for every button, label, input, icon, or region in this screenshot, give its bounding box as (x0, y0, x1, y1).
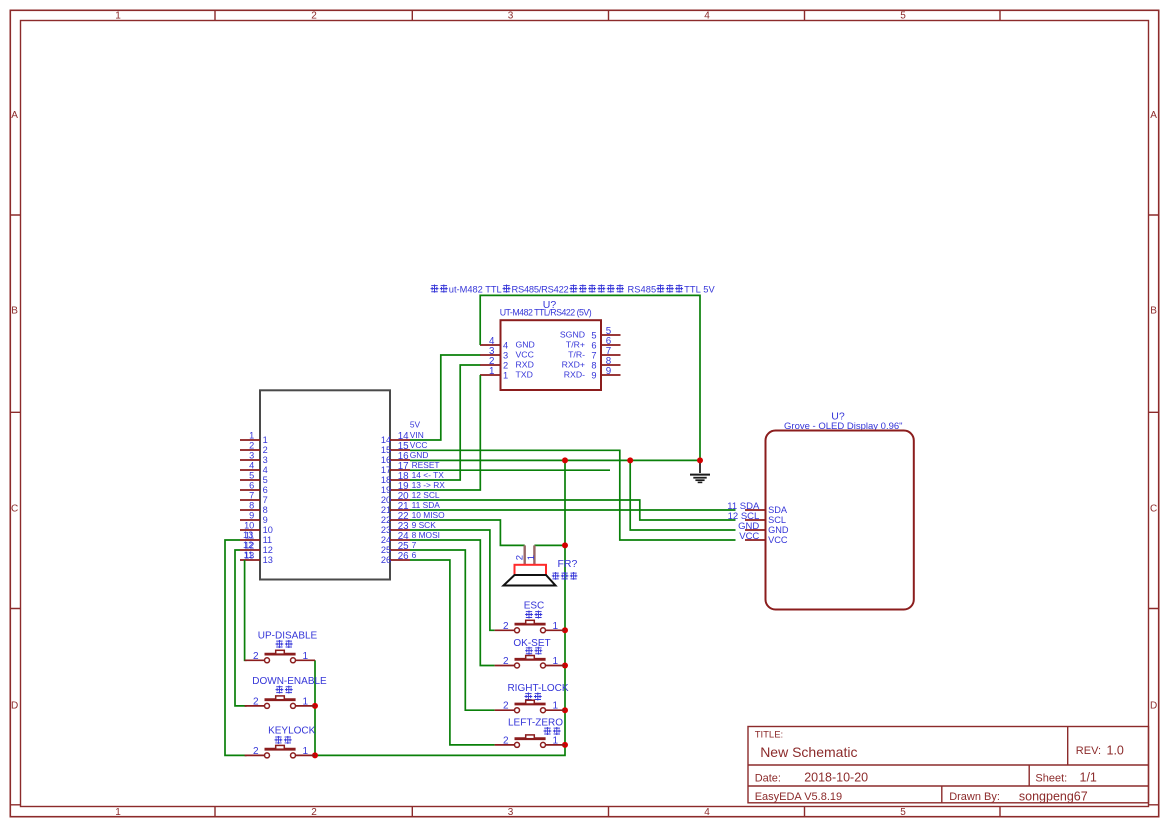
svg-text:UP-DISABLE: UP-DISABLE (258, 630, 318, 641)
wire GND vertical rail to buttons (315, 460, 566, 755)
wire GND rail from chip pin16 (410, 459, 700, 461)
wire GND to OLED GND (630, 460, 735, 530)
pin 20 (390, 499, 410, 501)
svg-text:1: 1 (553, 701, 559, 712)
junction (627, 457, 633, 463)
svg-text:5: 5 (900, 11, 906, 22)
pin 2 RXD (480, 364, 501, 366)
junction (312, 752, 318, 758)
wire chip pin13 to UP-DISABLE (245, 560, 247, 660)
svg-text:Drawn By:: Drawn By: (949, 791, 1000, 803)
pin 5 (240, 479, 260, 481)
wire SCL: chip pin20 to OLED SCL (410, 500, 736, 520)
svg-text:10 MISO: 10 MISO (412, 510, 446, 520)
pin 7 T/R- (601, 354, 621, 356)
wire chip pin23 to ESC (410, 530, 495, 630)
svg-text:9: 9 (591, 370, 596, 380)
svg-text:ESC: ESC (524, 601, 545, 612)
svg-text:Date:: Date: (755, 772, 781, 784)
svg-text:GND: GND (768, 525, 789, 535)
svg-text:RS485/RS422: RS485/RS422 (512, 285, 569, 295)
svg-text:RXD+: RXD+ (562, 360, 585, 370)
pin 19 (390, 489, 410, 491)
IC: 26-pin header/MCU block (240, 390, 445, 579)
svg-text:KEYLOCK: KEYLOCK (268, 725, 316, 736)
svg-text:4: 4 (249, 461, 254, 471)
svg-text:12: 12 (263, 545, 273, 555)
svg-text:DOWN-ENABLE: DOWN-ENABLE (252, 676, 327, 687)
svg-text:EasyEDA V5.8.19: EasyEDA V5.8.19 (755, 791, 842, 803)
pin 26 (390, 559, 410, 561)
svg-text:VCC: VCC (516, 350, 534, 360)
svg-text:14: 14 (381, 435, 391, 445)
pin 9 (240, 519, 260, 521)
svg-text:2018-10-20: 2018-10-20 (804, 771, 868, 785)
svg-text:9: 9 (263, 515, 268, 525)
wire GND: RS485 pin4 to ground rail (480, 295, 700, 460)
svg-text:TXD: TXD (516, 370, 533, 380)
svg-text:26: 26 (398, 551, 409, 562)
svg-text:1: 1 (553, 621, 559, 632)
svg-text:A: A (11, 110, 18, 121)
svg-text:7: 7 (263, 495, 268, 505)
svg-text:RESET: RESET (412, 460, 440, 470)
svg-text:24: 24 (381, 535, 391, 545)
svg-text:2: 2 (503, 701, 509, 712)
pin SDA (745, 509, 766, 511)
switch UP-DISABLE 按键 (245, 630, 318, 663)
svg-text:SGND: SGND (560, 330, 585, 340)
pin 1 TXD (480, 374, 501, 376)
svg-text:RS485: RS485 (628, 285, 657, 295)
IC U? : Grove - OLED Display 0.96&quot; (727, 411, 914, 610)
svg-text:1/1: 1/1 (1080, 771, 1097, 785)
svg-text:20: 20 (381, 495, 391, 505)
pin GND (745, 529, 766, 531)
svg-text:RXD: RXD (516, 360, 534, 370)
pin 5 SGND (601, 334, 621, 336)
svg-text:3: 3 (508, 11, 514, 22)
pin 15 (390, 449, 410, 451)
pin 12 (240, 549, 260, 551)
svg-text:RXD-: RXD- (564, 370, 585, 380)
pin 14 (390, 439, 410, 441)
svg-text:21: 21 (381, 505, 391, 515)
svg-text:5: 5 (249, 471, 254, 481)
pin 22 (390, 519, 410, 521)
svg-text:1: 1 (115, 807, 121, 818)
pin 18 (390, 479, 410, 481)
junction (697, 457, 703, 463)
svg-text:6: 6 (412, 550, 417, 560)
wire RX: RS485 TXD to chip pin19 (410, 375, 480, 490)
svg-text:10: 10 (263, 525, 273, 535)
svg-text:19: 19 (381, 485, 391, 495)
svg-text:1.0: 1.0 (1107, 744, 1124, 758)
switch DOWN-ENABLE 按键 (245, 676, 327, 708)
wire TX: RS485 RXD to chip pin18 (410, 365, 480, 480)
svg-text:3: 3 (263, 455, 268, 465)
svg-text:2: 2 (253, 746, 259, 757)
pin 10 (240, 529, 260, 531)
wire chip pin11 to KEYLOCK (225, 540, 247, 755)
svg-text:VCC: VCC (410, 440, 428, 450)
pin 7 (240, 499, 260, 501)
wire SDA: chip pin21 to OLED SDA (410, 509, 736, 511)
svg-text:New Schematic: New Schematic (760, 744, 857, 760)
junction (562, 627, 568, 633)
junction (562, 707, 568, 713)
svg-text:1: 1 (526, 555, 537, 560)
svg-text:5V: 5V (410, 420, 421, 430)
junction (312, 703, 318, 709)
svg-text:2: 2 (514, 555, 525, 560)
svg-text:FR?: FR? (558, 558, 578, 570)
svg-text:2: 2 (503, 360, 508, 370)
svg-text:OK-SET: OK-SET (513, 638, 550, 649)
pin 2 (240, 449, 260, 451)
pin SCL (745, 519, 766, 521)
svg-text:2: 2 (311, 11, 317, 22)
svg-text:8 MOSI: 8 MOSI (412, 530, 440, 540)
pin 13 (240, 559, 260, 561)
ground (690, 460, 710, 482)
svg-text:VCC: VCC (739, 531, 759, 542)
svg-text:2: 2 (503, 621, 509, 632)
svg-text:6: 6 (249, 481, 254, 491)
svg-text:T/R-: T/R- (568, 350, 585, 360)
svg-text:9: 9 (606, 366, 611, 377)
svg-text:REV:: REV: (1076, 745, 1101, 757)
svg-text:C: C (11, 504, 18, 515)
svg-text:1: 1 (553, 735, 559, 746)
svg-text:Sheet:: Sheet: (1035, 772, 1067, 784)
wire VCC: chip pin15 to OLED VCC (410, 450, 736, 540)
pin 8 RXD+ (601, 364, 621, 366)
svg-text:11 SDA: 11 SDA (412, 500, 441, 510)
svg-text:4: 4 (263, 465, 268, 475)
wire 5V: RS485 VCC to chip VIN (410, 355, 480, 440)
svg-text:5: 5 (900, 807, 906, 818)
svg-text:13: 13 (263, 555, 273, 565)
svg-text:TTL 5V: TTL 5V (684, 285, 715, 295)
junction (562, 542, 568, 548)
svg-text:3: 3 (249, 451, 254, 461)
svg-text:10: 10 (244, 521, 254, 531)
svg-text:1: 1 (303, 651, 309, 662)
wire RESET stub from chip pin17 (410, 469, 610, 471)
pin 6 (240, 489, 260, 491)
svg-text:13 -> RX: 13 -> RX (412, 480, 446, 490)
svg-text:TITLE:: TITLE: (755, 729, 784, 740)
pin 23 (390, 529, 410, 531)
svg-text:26: 26 (381, 555, 391, 565)
svg-text:1: 1 (263, 435, 268, 445)
svg-text:GND: GND (516, 340, 535, 350)
svg-text:2: 2 (253, 651, 259, 662)
svg-text:8: 8 (249, 501, 254, 511)
svg-text:SDA: SDA (768, 505, 788, 515)
switch KEYLOCK 按键 (245, 725, 316, 758)
switch LEFT-ZERO 按键 (495, 717, 565, 747)
pin 11 (240, 539, 260, 541)
svg-text:1: 1 (303, 696, 309, 707)
svg-text:8: 8 (263, 505, 268, 515)
svg-text:C: C (1150, 504, 1157, 515)
wire chip pin26 to LEFT-ZERO (410, 560, 495, 745)
svg-text:1: 1 (249, 431, 254, 441)
wire chip pin25 to RIGHT-LOCK (410, 550, 495, 710)
svg-text:3: 3 (503, 350, 508, 360)
pin 3 VCC (480, 354, 501, 356)
svg-text:SCL: SCL (768, 515, 786, 525)
pin 16 (390, 459, 410, 461)
svg-text:GND: GND (410, 450, 429, 460)
svg-text:RIGHT-LOCK: RIGHT-LOCK (507, 683, 568, 694)
pin 17 (390, 469, 410, 471)
svg-text:2: 2 (253, 696, 259, 707)
svg-text:11: 11 (244, 550, 254, 560)
svg-text:23: 23 (381, 525, 391, 535)
svg-text:D: D (1150, 701, 1157, 712)
svg-text:14 <- TX: 14 <- TX (412, 470, 445, 480)
svg-text:4: 4 (704, 807, 710, 818)
svg-text:12: 12 (243, 540, 253, 550)
svg-text:13: 13 (243, 530, 253, 540)
svg-text:LEFT-ZERO: LEFT-ZERO (508, 717, 563, 728)
svg-text:1: 1 (553, 656, 559, 667)
svg-text:5: 5 (591, 330, 596, 340)
svg-text:4: 4 (704, 11, 710, 22)
wire buzzer pin1 to GND (534, 544, 565, 546)
svg-text:4: 4 (503, 340, 508, 350)
svg-text:VCC: VCC (768, 535, 788, 545)
svg-text:18: 18 (381, 475, 391, 485)
svg-text:9: 9 (249, 511, 254, 521)
svg-text:A: A (1150, 110, 1157, 121)
pin VCC (745, 539, 766, 541)
pin 21 (390, 509, 410, 511)
svg-text:B: B (11, 306, 18, 317)
pin 24 (390, 539, 410, 541)
svg-text:7: 7 (412, 540, 417, 550)
svg-text:1: 1 (115, 11, 121, 22)
wire chip pin22 to buzzer pin2 (410, 520, 525, 545)
svg-text:2: 2 (263, 445, 268, 455)
svg-text:15: 15 (381, 445, 391, 455)
svg-text:1: 1 (489, 366, 494, 377)
svg-text:2: 2 (503, 735, 509, 746)
svg-text:22: 22 (381, 515, 391, 525)
svg-text:songpeng67: songpeng67 (1019, 789, 1088, 803)
svg-text:5: 5 (263, 475, 268, 485)
junction (562, 663, 568, 669)
pin 4 GND (480, 344, 501, 346)
svg-text:9 SCK: 9 SCK (412, 520, 437, 530)
svg-text:7: 7 (249, 491, 254, 501)
pin 4 (240, 469, 260, 471)
wire button pin1 chain left column (314, 660, 316, 755)
switch OK-SET 按键 (495, 638, 565, 668)
svg-text:8: 8 (591, 360, 596, 370)
junction (562, 457, 568, 463)
svg-text:6: 6 (591, 340, 596, 350)
svg-text:2: 2 (311, 807, 317, 818)
wire chip pin12 to DOWN-ENABLE (235, 550, 247, 706)
svg-text:UT-M482 TTL/RS422 (5V): UT-M482 TTL/RS422 (5V) (500, 307, 592, 317)
svg-text:VIN: VIN (410, 430, 424, 440)
wire chip pin24 to OK-SET (410, 540, 495, 666)
svg-text:T/R+: T/R+ (566, 340, 585, 350)
svg-text:ut-M482 TTL: ut-M482 TTL (449, 285, 502, 295)
svg-text:11: 11 (263, 535, 273, 545)
pin 8 (240, 509, 260, 511)
svg-text:1: 1 (303, 746, 309, 757)
svg-text:2: 2 (249, 441, 254, 451)
pin 9 RXD- (601, 374, 621, 376)
svg-text:1: 1 (503, 370, 508, 380)
pin 25 (390, 549, 410, 551)
IC U? : RS485 isolation module UT-M482 TTL/RS422 (5V) (480, 299, 621, 390)
svg-text:D: D (11, 701, 18, 712)
svg-text:12 SCL: 12 SCL (412, 490, 440, 500)
pin 3 (240, 459, 260, 461)
switch ESC 按键 (495, 601, 565, 633)
text: RS485 module chinese description (431, 285, 716, 295)
switch RIGHT-LOCK 按键 (495, 683, 569, 713)
svg-text:3: 3 (508, 807, 514, 818)
svg-text:B: B (1150, 306, 1157, 317)
svg-text:17: 17 (381, 465, 391, 475)
svg-text:2: 2 (503, 656, 509, 667)
pin 1 (240, 439, 260, 441)
junction (562, 742, 568, 748)
pin 6 T/R+ (601, 344, 621, 346)
svg-text:6: 6 (263, 485, 268, 495)
svg-text:7: 7 (591, 350, 596, 360)
svg-text:16: 16 (381, 455, 391, 465)
svg-text:25: 25 (381, 545, 391, 555)
buzzer FR? (504, 545, 578, 585)
